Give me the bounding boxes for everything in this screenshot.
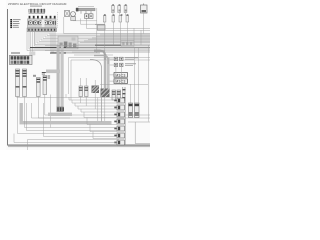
legend: wire color code [10,19,20,28]
label: M3C3 box 1 [114,73,128,78]
wire: fuse F3/F4 to center [38,95,150,128]
resistor R3 (hatched box right) [101,89,110,98]
wire: bottom rails [14,134,119,151]
lamp L1 (top right) [141,4,148,14]
wire: center nested loop [69,58,151,101]
plug P5 [112,14,115,22]
switch S2 [110,63,136,66]
fuse F2 [23,69,27,97]
label: M3C3 box 2 [114,79,128,84]
bus: thick gray horizontal (lower) [48,113,72,116]
svg-text:M3C3: M3C3 [115,80,125,84]
bus: thick gray branch left [46,70,60,74]
pin row CN2 (column of terminal boxes) [114,98,124,145]
bus: horizontal harness lines (mid) [45,31,150,56]
wire: left border bus [8,9,151,147]
switch S1 [110,57,138,60]
capacitor C5 (bottom right striped) [129,103,133,118]
wire: component stubs (C1 C2 R2) [81,78,96,109]
wire: bottom right connections [125,97,150,145]
breaker X2 (small box with cross) [65,11,70,17]
wire: corner arcs into risers [90,51,148,122]
plug P3 [124,4,127,12]
wire: plug P4-P7 drops [105,13,144,123]
wire: M3C3 stubs [110,75,114,81]
wire: nested loop 1 (bottom left) [18,97,118,134]
plug P6 [119,14,122,22]
wire: staircase corners center-bottom [66,94,93,139]
fuse F3 [33,75,40,97]
title: ZP30PC ELECTRICAL CIRCUIT DIAGRAM [8,2,67,6]
capacitor C3 [112,90,116,100]
bus: right thick riser pair [104,54,110,96]
capacitor C1 [79,86,83,97]
wire: nested loop 5 [44,103,118,137]
capacitor C4 [117,90,121,100]
bus: bottom-right harness lines to pin column [17,98,118,139]
connector CN11 (small box right of relays) [95,25,105,31]
wire: top-middle routing [58,8,151,122]
wire: switch drops [116,67,121,85]
fuse F4 [42,72,50,95]
wire: right drops [131,45,149,122]
relay module M1 (gray box center) [58,36,78,49]
resistor R1 (top bar) [76,7,95,14]
wire: nested loop 4 [32,103,71,118]
resistor R2 (hatched box) [92,86,100,94]
bus: thick gray L (bottom left) [20,103,112,124]
relay contacts S3 S4 (two small boxes) [85,14,94,19]
plug P1 [112,4,115,12]
terminal strip TB1 [27,28,57,32]
junction block J1 (gray, right of bus) [121,41,134,48]
capacitor C2 [85,86,89,97]
plug P4 [103,14,106,22]
plug P2 [118,4,121,12]
relay block K1 [28,16,57,28]
terminal ladder X1 [122,87,125,101]
connector CN1 (left block) [10,52,36,65]
bus: thick gray riser (center) [57,45,64,112]
wire: nested loop 3 [27,103,118,131]
wire: nested loop 2 [25,97,118,128]
plug P7 [126,14,129,22]
fuse F1 [16,69,20,97]
wire: relay K1 drop wires (staircase) [27,32,150,56]
svg-text:M3C3: M3C3 [115,73,125,77]
capacitor C6 (bottom right striped) [135,103,140,118]
connector CN10 (top, with pins) [29,6,46,14]
bus: main harness (dark) [30,45,150,53]
motor M2 (circle + box) [71,12,76,21]
